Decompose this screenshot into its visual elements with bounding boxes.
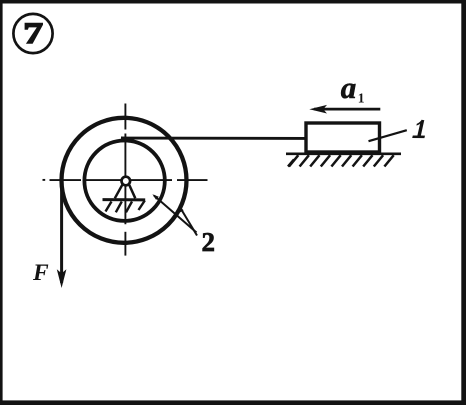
svg-text:1: 1 xyxy=(358,91,365,106)
label 1 xyxy=(412,120,425,139)
label 2 leader line to outer circle xyxy=(180,207,198,236)
pivot hatching xyxy=(106,201,145,213)
pivot pin xyxy=(122,177,131,186)
drum outer circle (pulley 2) xyxy=(62,118,187,243)
svg-text:7: 7 xyxy=(23,17,43,50)
ground hatching xyxy=(288,155,394,166)
rope from drum to block xyxy=(121,137,307,140)
svg-text:F: F xyxy=(32,260,49,286)
leader line to label 1 xyxy=(369,130,407,141)
horizontal center line xyxy=(43,179,208,181)
pivot triangle xyxy=(115,185,136,199)
problem number badge 7 xyxy=(13,14,52,53)
acceleration arrow a1 xyxy=(314,108,380,111)
pivot base line xyxy=(103,198,146,201)
block 1 xyxy=(306,123,380,152)
a1 arrowhead xyxy=(309,105,327,114)
leader B arrowhead xyxy=(179,206,184,213)
ground line under block xyxy=(286,152,401,155)
svg-text:a: a xyxy=(341,70,357,105)
rope hanging left with force F xyxy=(60,176,63,283)
force F arrowhead xyxy=(57,269,67,288)
leader A arrowhead xyxy=(152,194,158,200)
drum inner circle (pulley 2) xyxy=(84,141,164,221)
svg-text:2: 2 xyxy=(202,227,216,257)
vertical center line xyxy=(124,104,126,256)
label 2 leader line to inner circle xyxy=(154,196,197,233)
